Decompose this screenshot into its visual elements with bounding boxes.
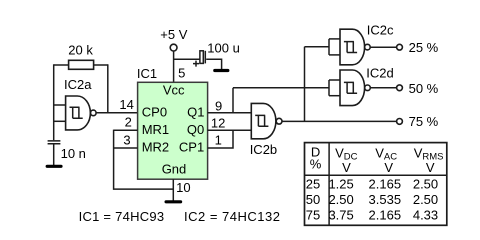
capacitor C 100u left plate <box>200 51 203 64</box>
svg-text:IC2a: IC2a <box>64 77 92 92</box>
supply terminal circle <box>170 44 177 51</box>
wire IC2c output <box>370 46 396 48</box>
wire IC2d input stub top <box>329 79 340 81</box>
wire input bus vertical <box>53 64 55 140</box>
gate IC2a output bubble <box>91 110 97 116</box>
schmitt symbol IC2d <box>344 82 357 93</box>
svg-text:2.50: 2.50 <box>413 177 438 192</box>
schmitt symbol IC2a <box>70 107 83 118</box>
svg-text:MR1: MR1 <box>142 122 169 137</box>
wire IC2d input tie bar <box>328 80 330 96</box>
svg-text:CP0: CP0 <box>142 105 167 120</box>
svg-text:25 %: 25 % <box>409 40 439 55</box>
svg-text:V: V <box>426 160 435 175</box>
gate IC2c output bubble <box>365 44 371 50</box>
svg-text:2.50: 2.50 <box>413 192 438 207</box>
wire MR2 pin 3 <box>114 147 138 149</box>
svg-text:14: 14 <box>119 97 133 112</box>
svg-text:V: V <box>384 160 393 175</box>
wire Q1 to IC2d input <box>233 87 329 89</box>
gate IC2d output bubble <box>365 85 371 91</box>
wire IC2d input stub bottom <box>329 95 340 97</box>
wire node Q1 riser <box>232 88 234 113</box>
svg-text:CP1: CP1 <box>179 140 204 155</box>
svg-text:50: 50 <box>306 192 320 207</box>
svg-text:Q1: Q1 <box>187 105 204 120</box>
svg-text:100 u: 100 u <box>207 41 240 56</box>
wire to IC2c input <box>305 46 330 48</box>
svg-text:%: % <box>310 157 322 172</box>
svg-text:75: 75 <box>306 208 320 223</box>
svg-text:1.25: 1.25 <box>328 177 353 192</box>
IC U1 74HC93 body <box>138 82 208 179</box>
wire IC2b output to 75% <box>282 120 397 122</box>
svg-text:IC2b: IC2b <box>250 142 277 157</box>
gate IC2b output bubble <box>276 118 282 124</box>
svg-text:50 %: 50 % <box>409 81 439 96</box>
wire resistor right <box>94 64 108 66</box>
wire Q0 pin 12 to IC2b <box>208 129 252 131</box>
svg-text:Gnd: Gnd <box>162 162 187 177</box>
table frame <box>305 143 447 226</box>
gate IC2b body <box>251 103 276 138</box>
table header divider <box>305 174 447 176</box>
svg-text:5: 5 <box>178 65 185 80</box>
wire supply to Vcc pin 5 <box>173 51 175 82</box>
wire CP1 pin 1 feedback <box>208 130 233 148</box>
wire IC2c input stub top <box>329 38 340 40</box>
svg-text:IC2c: IC2c <box>367 23 394 38</box>
ground symbol top <box>215 69 228 72</box>
svg-text:1: 1 <box>215 133 222 148</box>
svg-text:IC1 = 74HC93: IC1 = 74HC93 <box>79 209 165 224</box>
svg-text:9: 9 <box>215 98 222 113</box>
svg-text:20 k: 20 k <box>68 42 93 57</box>
wire IC2c input stub bottom <box>329 54 340 56</box>
terminal circle 50% <box>397 85 403 91</box>
svg-text:IC2d: IC2d <box>366 66 393 81</box>
gate IC2a body <box>66 96 91 130</box>
wire IC2a input stub bottom <box>54 120 66 122</box>
ground symbol left <box>47 165 61 168</box>
resistor R 20k body <box>69 60 94 69</box>
svg-text:10 n: 10 n <box>61 146 86 161</box>
wire IC2d output <box>370 87 396 89</box>
schmitt symbol IC2b <box>255 115 268 126</box>
wire feedback vertical <box>107 64 109 113</box>
svg-text:3.75: 3.75 <box>328 208 353 223</box>
wire MR1 pin 2 <box>114 129 138 131</box>
svg-text:4.33: 4.33 <box>413 208 438 223</box>
wire capacitor to ground <box>53 144 55 165</box>
wire node riser to IC2c <box>304 47 306 122</box>
svg-text:2.165: 2.165 <box>369 208 402 223</box>
capacitor C 100u right plate <box>204 51 206 64</box>
wire IC2c input tie bar <box>328 39 330 55</box>
svg-text:IC1: IC1 <box>137 66 157 81</box>
svg-text:Q0: Q0 <box>187 122 204 137</box>
wire Gnd pin 10 <box>172 179 174 200</box>
wire IC2a output to pin 14 <box>96 112 138 114</box>
svg-text:25: 25 <box>306 177 320 192</box>
wire supply branch to capacitor <box>174 58 200 60</box>
wire MR bus to ground <box>114 130 174 190</box>
svg-text:3.535: 3.535 <box>369 192 402 207</box>
svg-text:12: 12 <box>211 115 225 130</box>
terminal circle 25% <box>397 44 403 50</box>
wire capacitor to ground right <box>206 59 221 69</box>
svg-text:2.165: 2.165 <box>369 177 402 192</box>
ground symbol bottom <box>166 200 181 203</box>
svg-text:MR2: MR2 <box>142 140 169 155</box>
svg-text:75 %: 75 % <box>409 114 439 129</box>
svg-text:10: 10 <box>176 180 190 195</box>
gate IC2d body <box>340 70 365 106</box>
wire IC2a input stub top <box>54 104 66 106</box>
gate IC2c body <box>340 29 365 65</box>
svg-text:IC2 = 74HC132: IC2 = 74HC132 <box>184 209 280 224</box>
wire Q1 pin 9 to IC2b <box>208 112 252 114</box>
capacitor C 10n plates <box>48 141 61 144</box>
svg-text:Vcc: Vcc <box>163 82 185 97</box>
wire resistor left <box>54 64 69 66</box>
svg-text:2: 2 <box>125 114 132 129</box>
svg-text:3: 3 <box>123 132 130 147</box>
table column divider <box>328 143 330 226</box>
terminal circle 75% <box>397 119 403 125</box>
capacitor C 100u polarity plus <box>193 61 199 67</box>
svg-text:V: V <box>342 160 351 175</box>
svg-text:2.50: 2.50 <box>328 192 353 207</box>
svg-text:+5 V: +5 V <box>160 27 187 42</box>
schmitt symbol IC2c <box>344 42 357 53</box>
